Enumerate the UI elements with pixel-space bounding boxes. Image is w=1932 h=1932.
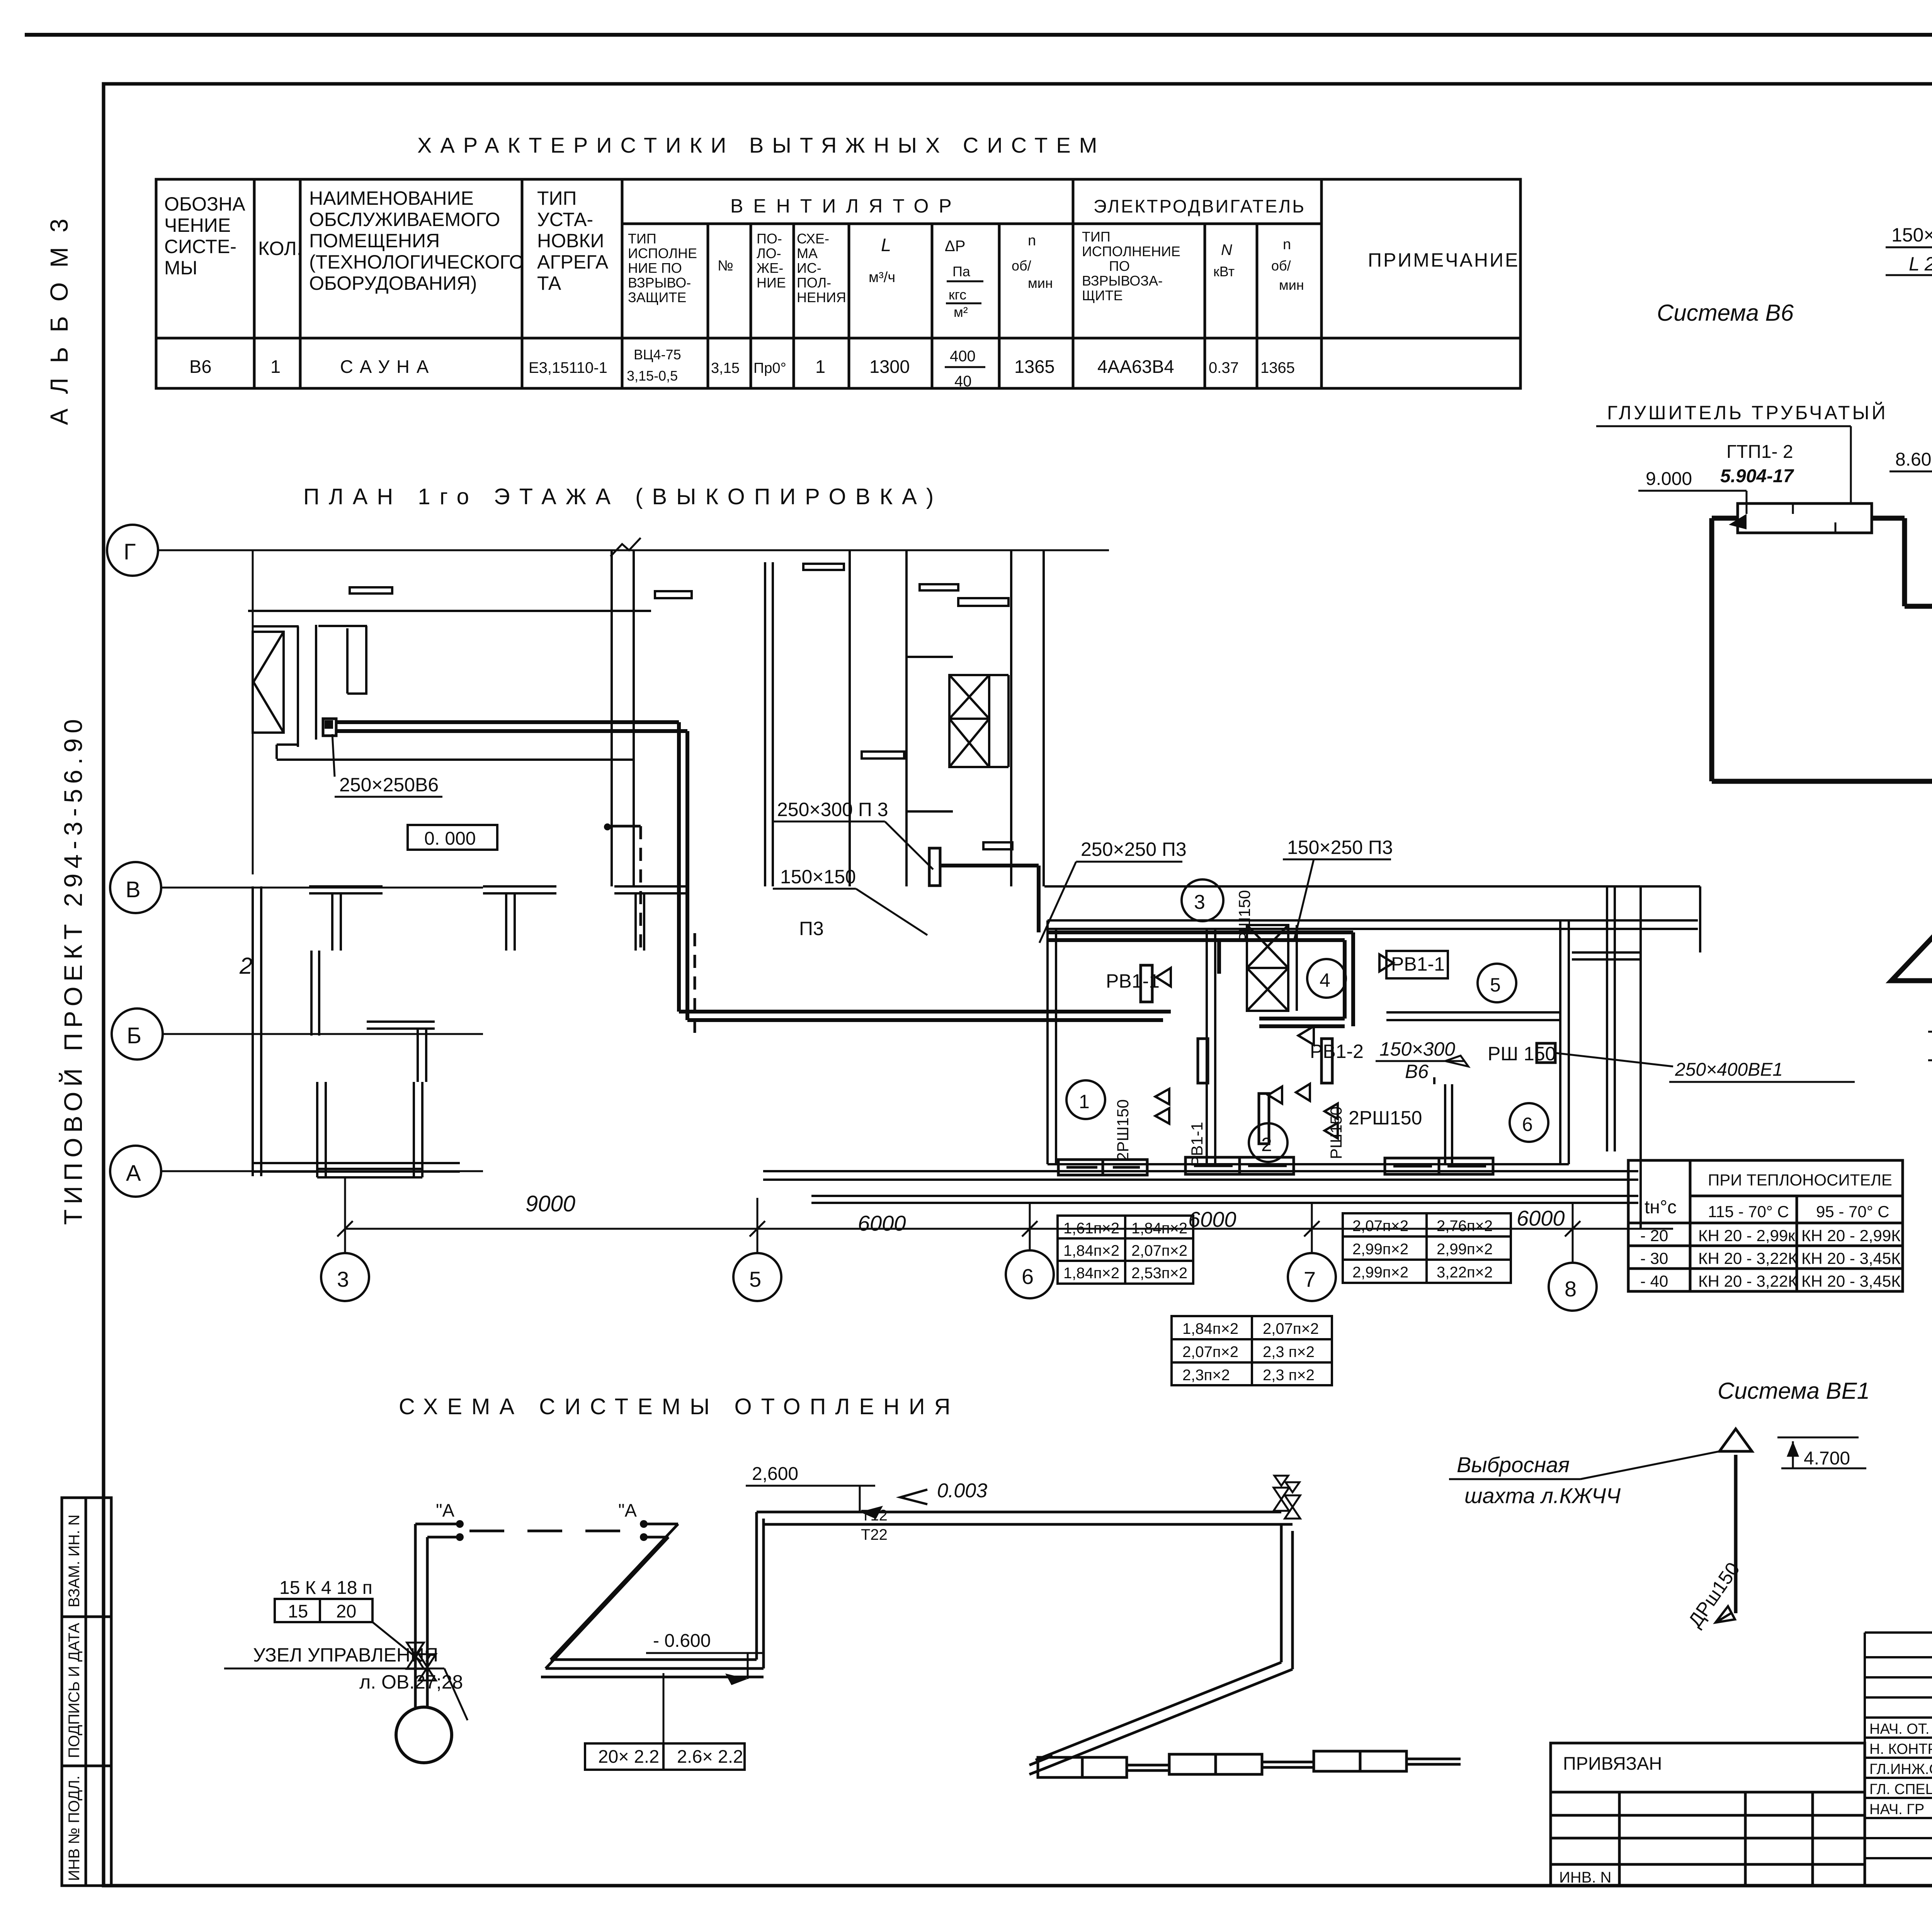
svg-text:ПОЛ-: ПОЛ-	[797, 275, 831, 291]
axis circle G	[107, 525, 163, 1197]
svg-text:л. ОВ.27;28: л. ОВ.27;28	[359, 1671, 463, 1693]
svg-text:Выбросная: Выбросная	[1457, 1452, 1570, 1477]
svg-text:НОВКИ: НОВКИ	[537, 230, 604, 252]
svg-text:В6: В6	[189, 356, 212, 377]
room number circles	[1066, 959, 1548, 1162]
svg-text:ВЗРЫВОЗА-: ВЗРЫВОЗА-	[1082, 273, 1163, 289]
P3 riser in corridor	[929, 848, 940, 886]
radiators in plan	[1058, 1157, 1493, 1175]
svg-text:ТА: ТА	[537, 272, 561, 294]
svg-text:Б: Б	[127, 1023, 141, 1048]
svg-text:РШ150: РШ150	[1235, 890, 1253, 943]
svg-text:"А: "А	[436, 1500, 455, 1520]
V6 2.600 run	[1712, 779, 1932, 784]
svg-text:м²: м²	[954, 304, 968, 320]
P3 duct inside block	[1048, 932, 1353, 1026]
shower X grilles	[1247, 925, 1297, 1011]
svg-text:95 - 70° С: 95 - 70° С	[1816, 1202, 1889, 1221]
svg-text:А Л Ь Б О М 3: А Л Ь Б О М 3	[45, 215, 73, 425]
duct B6 upper	[336, 722, 1171, 1020]
svg-text:НАИМЕНОВАНИЕ: НАИМЕНОВАНИЕ	[309, 187, 474, 209]
upper-left walls	[248, 550, 1044, 886]
svg-text:2,07п×2: 2,07п×2	[1182, 1344, 1238, 1361]
svg-text:2,76п×2: 2,76п×2	[1437, 1218, 1493, 1235]
svg-text:мин: мин	[1028, 275, 1053, 291]
sidebar boxes	[62, 1498, 111, 1886]
svg-text:КН 20 - 2,99К: КН 20 - 2,99К	[1801, 1226, 1901, 1245]
svg-text:5: 5	[749, 1267, 761, 1291]
svg-text:КОЛ.: КОЛ.	[258, 238, 302, 259]
svg-text:Па: Па	[952, 264, 971, 279]
svg-text:ПЛАН 1го ЭТАЖА (ВЫКОПИРОВКА: ПЛАН 1го ЭТАЖА (ВЫКОПИРОВКА)	[303, 484, 943, 509]
svg-text:1365: 1365	[1260, 359, 1295, 376]
svg-text:ПРИ ТЕПЛОНОСИТЕЛЕ: ПРИ ТЕПЛОНОСИТЕЛЕ	[1708, 1171, 1892, 1189]
svg-text:9000: 9000	[526, 1191, 575, 1216]
svg-text:РВ1-2: РВ1-2	[1310, 1041, 1364, 1062]
big Z duct	[1891, 781, 1932, 1068]
svg-text:2,53п×2: 2,53п×2	[1131, 1265, 1187, 1282]
svg-text:В: В	[126, 877, 141, 902]
svg-text:ТИП: ТИП	[537, 187, 577, 209]
svg-text:2,07п×2: 2,07п×2	[1263, 1320, 1319, 1337]
svg-text:ХАРАКТЕРИСТИКИ ВЫТЯЖНЫХ СИСТ: ХАРАКТЕРИСТИКИ ВЫТЯЖНЫХ СИСТЕМ	[417, 133, 1105, 157]
svg-text:ИСПОЛНЕНИЕ: ИСПОЛНЕНИЕ	[1082, 243, 1180, 259]
svg-text:1365: 1365	[1014, 356, 1055, 377]
svg-text:2,07п×2: 2,07п×2	[1131, 1242, 1187, 1259]
svg-text:1,84п×2: 1,84п×2	[1131, 1220, 1187, 1237]
svg-text:НЕНИЯ: НЕНИЯ	[797, 289, 846, 305]
svg-text:СХЕ-: СХЕ-	[797, 231, 829, 247]
svg-text:2,600: 2,600	[752, 1464, 798, 1484]
svg-text:n: n	[1028, 233, 1036, 249]
radiator row bottom	[1038, 1751, 1461, 1777]
riser top elbow to T12 T22	[757, 1512, 1293, 1524]
svg-text:40: 40	[954, 373, 972, 390]
silencer box	[1738, 503, 1872, 533]
svg-text:15 К 4 18 п: 15 К 4 18 п	[279, 1578, 372, 1598]
svg-text:ПО: ПО	[1109, 258, 1130, 274]
svg-text:3,22п×2: 3,22п×2	[1437, 1264, 1493, 1281]
axis horizontal lines	[158, 550, 1109, 1171]
svg-text:3,15: 3,15	[711, 360, 740, 376]
svg-text:ГЛУШИТЕЛЬ ТРУБЧАТЫЙ: ГЛУШИТЕЛЬ ТРУБЧАТЫЙ	[1607, 401, 1888, 423]
svg-text:УСТА-: УСТА-	[537, 209, 593, 230]
svg-text:8: 8	[1565, 1277, 1577, 1301]
svg-text:СИСТЕ-: СИСТЕ-	[164, 236, 236, 257]
svg-text:2.6× 2.2: 2.6× 2.2	[677, 1746, 743, 1767]
V6 duct from silencer	[1712, 518, 1738, 781]
svg-text:ГЛ.ИНЖ.ОТ: ГЛ.ИНЖ.ОТ	[1869, 1761, 1932, 1777]
svg-text:3,15-0,5: 3,15-0,5	[627, 368, 678, 384]
table near axis 6	[1058, 1216, 1193, 1284]
svg-text:ЩИТЕ: ЩИТЕ	[1082, 287, 1123, 303]
svg-text:2,99п×2: 2,99п×2	[1352, 1241, 1408, 1258]
svg-text:РВ1-1: РВ1-1	[1106, 970, 1160, 992]
svg-text:4.700: 4.700	[1804, 1448, 1850, 1469]
svg-text:ИС-: ИС-	[797, 260, 821, 276]
svg-text:6000: 6000	[1188, 1207, 1236, 1231]
svg-text:0. 000: 0. 000	[424, 828, 476, 849]
svg-text:КН 20 - 3,45К: КН 20 - 3,45К	[1801, 1272, 1901, 1290]
svg-text:кВт: кВт	[1213, 264, 1235, 279]
svg-text:2,3 п×2: 2,3 п×2	[1263, 1344, 1315, 1361]
svg-text:ГЛ. СПЕЦ.: ГЛ. СПЕЦ.	[1869, 1781, 1932, 1798]
svg-text:tн°с: tн°с	[1645, 1197, 1677, 1218]
svg-text:1300: 1300	[869, 356, 910, 377]
svg-text:МЫ: МЫ	[164, 257, 197, 279]
svg-text:3: 3	[337, 1267, 349, 1291]
svg-text:2,3п×2: 2,3п×2	[1182, 1367, 1230, 1384]
svg-text:(ТЕХНОЛОГИЧЕСКОГО: (ТЕХНОЛОГИЧЕСКОГО	[309, 251, 524, 273]
radiator panel diagonal (left loop)	[546, 1524, 678, 1668]
svg-text:об/: об/	[1012, 258, 1031, 274]
svg-text:250×300 П 3: 250×300 П 3	[777, 799, 888, 820]
svg-text:ВЗАМ. ИН. N: ВЗАМ. ИН. N	[66, 1515, 83, 1608]
svg-text:ИСПОЛНЕ: ИСПОЛНЕ	[628, 245, 697, 261]
svg-text:Н. КОНТР: Н. КОНТР	[1869, 1741, 1932, 1757]
svg-text:6: 6	[1522, 1114, 1533, 1135]
break mark on G axis	[611, 538, 641, 556]
svg-text:ИНВ. N: ИНВ. N	[1559, 1869, 1611, 1886]
top elbows and A-A dashed	[415, 1524, 458, 1537]
svg-text:250×250В6: 250×250В6	[339, 774, 439, 796]
svg-text:n: n	[1283, 236, 1291, 253]
svg-text:- 40: - 40	[1640, 1272, 1668, 1290]
svg-text:МА: МА	[797, 245, 818, 261]
0.000 level box	[408, 825, 497, 850]
svg-text:СХЕМА СИСТЕМЫ ОТОПЛЕНИЯ: СХЕМА СИСТЕМЫ ОТОПЛЕНИЯ	[399, 1394, 959, 1419]
grille bars	[1141, 965, 1555, 1144]
dim labels P3	[1891, 176, 1932, 371]
svg-text:2: 2	[239, 953, 252, 979]
svg-text:кгс: кгс	[949, 287, 966, 303]
svg-text:6000: 6000	[1517, 1206, 1565, 1230]
svg-text:В6: В6	[1405, 1061, 1429, 1082]
svg-text:ИНВ № ПОДЛ.: ИНВ № ПОДЛ.	[66, 1776, 83, 1881]
svg-text:ТИПОВОЙ ПРОЕКТ 294-3-56.90: ТИПОВОЙ ПРОЕКТ 294-3-56.90	[58, 714, 87, 1225]
svg-text:П3: П3	[799, 918, 824, 939]
svg-text:№: №	[718, 258, 733, 274]
svg-text:НАЧ. ГР: НАЧ. ГР	[1869, 1801, 1924, 1818]
svg-text:L: L	[881, 235, 891, 255]
svg-text:2,99п×2: 2,99п×2	[1437, 1241, 1493, 1258]
privyazan box	[1551, 1743, 1865, 1886]
svg-text:L 210: L 210	[1909, 253, 1932, 275]
svg-text:1,84п×2: 1,84п×2	[1063, 1242, 1119, 1259]
char table grid	[156, 179, 1520, 388]
svg-text:5: 5	[1490, 974, 1501, 996]
4.700 mark	[1777, 1437, 1866, 1468]
svg-text:1: 1	[270, 356, 281, 377]
250x400 VE1 label	[1555, 1053, 1855, 1082]
svg-text:0.003: 0.003	[937, 1480, 987, 1502]
svg-text:А: А	[126, 1161, 141, 1186]
risers to pump	[415, 1524, 427, 1707]
svg-text:ОБСЛУЖИВАЕМОГО: ОБСЛУЖИВАЕМОГО	[309, 209, 500, 230]
svg-text:115 - 70° С: 115 - 70° С	[1708, 1202, 1789, 1221]
svg-text:2РШ150: 2РШ150	[1114, 1099, 1132, 1161]
svg-text:ПРИВЯЗАН: ПРИВЯЗАН	[1563, 1753, 1662, 1774]
svg-text:ЧЕНИЕ: ЧЕНИЕ	[164, 214, 231, 236]
svg-text:ПО-: ПО-	[757, 231, 782, 247]
svg-text:ЛО-: ЛО-	[757, 245, 781, 261]
dimension line	[345, 1228, 1673, 1230]
svg-text:КН 20 - 3,45К: КН 20 - 3,45К	[1801, 1249, 1901, 1267]
svg-text:АГРЕГА: АГРЕГА	[537, 251, 609, 273]
svg-text:2РШ150: 2РШ150	[1349, 1107, 1422, 1129]
svg-text:НАЧ. ОТ.: НАЧ. ОТ.	[1869, 1721, 1929, 1737]
svg-text:ТИП: ТИП	[628, 231, 656, 247]
svg-text:Пр0°: Пр0°	[753, 360, 786, 376]
svg-text:ТИП: ТИП	[1082, 229, 1111, 245]
svg-text:7: 7	[1304, 1267, 1316, 1291]
svg-text:ВЦ4-75: ВЦ4-75	[634, 347, 681, 362]
svg-text:250×250 П3: 250×250 П3	[1081, 838, 1187, 860]
svg-text:2: 2	[1261, 1134, 1272, 1155]
svg-text:"А: "А	[618, 1500, 637, 1520]
T stubs	[309, 886, 688, 1177]
svg-text:ОБОЗНА: ОБОЗНА	[164, 193, 245, 215]
svg-text:НИЕ ПО: НИЕ ПО	[628, 260, 682, 276]
svg-text:8.600: 8.600	[1895, 449, 1932, 470]
svg-text:1,84п×2: 1,84п×2	[1063, 1265, 1119, 1282]
char table header texts	[164, 187, 1519, 294]
svg-text:шахта л.КЖЧЧ: шахта л.КЖЧЧ	[1464, 1483, 1621, 1508]
svg-text:1,84п×2: 1,84п×2	[1182, 1320, 1238, 1337]
svg-text:- 0.600: - 0.600	[653, 1631, 711, 1651]
room circle 3	[1182, 879, 1223, 921]
svg-text:Т22: Т22	[861, 1526, 888, 1543]
svg-text:ВЗРЫВО-: ВЗРЫВО-	[628, 275, 691, 291]
svg-text:150×250 П3: 150×250 П3	[1287, 837, 1393, 858]
svg-text:РШ 150: РШ 150	[1488, 1043, 1556, 1065]
svg-text:6000: 6000	[858, 1211, 906, 1235]
svg-text:ПРИМЕЧАНИЕ: ПРИМЕЧАНИЕ	[1368, 249, 1519, 271]
svg-text:Е3,15110-1: Е3,15110-1	[529, 359, 607, 376]
diagonal down to radiator row	[1036, 1662, 1293, 1769]
right wing	[1572, 886, 1700, 1229]
grid circles bottom	[321, 1250, 1597, 1311]
border outer top line	[25, 33, 1932, 37]
char table data row	[189, 347, 1295, 390]
svg-text:- 30: - 30	[1640, 1249, 1668, 1267]
B6 intake grille	[323, 719, 336, 736]
svg-text:1,61п×2: 1,61п×2	[1063, 1220, 1119, 1237]
svg-text:1: 1	[815, 356, 825, 377]
svg-text:ΔР: ΔР	[945, 238, 965, 255]
svg-text:Система ВЕ1: Система ВЕ1	[1718, 1378, 1870, 1404]
right riser with valves	[1274, 1476, 1300, 1519]
svg-text:150×150: 150×150	[780, 866, 856, 888]
svg-text:4АА63В4: 4АА63В4	[1097, 356, 1174, 377]
svg-text:150×300: 150×300	[1379, 1038, 1455, 1060]
svg-text:N: N	[1221, 241, 1232, 259]
svg-text:РВ1-1: РВ1-1	[1188, 1122, 1206, 1167]
svg-text:НИЕ: НИЕ	[757, 275, 786, 291]
sauna block outline	[1044, 886, 1700, 1164]
svg-text:м³/ч: м³/ч	[869, 269, 895, 286]
svg-text:ОБОРУДОВАНИЯ): ОБОРУДОВАНИЯ)	[309, 272, 477, 294]
svg-text:- 20: - 20	[1640, 1226, 1668, 1245]
svg-text:об/: об/	[1271, 258, 1291, 274]
svg-text:20× 2.2: 20× 2.2	[598, 1746, 659, 1767]
svg-text:КН 20 - 3,22К: КН 20 - 3,22К	[1698, 1249, 1798, 1267]
table near axis 7-8	[1343, 1213, 1511, 1283]
svg-text:КН 20 - 2,99к: КН 20 - 2,99к	[1698, 1226, 1795, 1245]
pump circle	[396, 1707, 452, 1763]
svg-text:4: 4	[1320, 969, 1330, 991]
svg-text:ПОМЕЩЕНИЯ: ПОМЕЩЕНИЯ	[309, 230, 440, 252]
svg-text:5.904-17: 5.904-17	[1720, 466, 1794, 486]
svg-text:15: 15	[288, 1601, 308, 1621]
svg-text:2,3 п×2: 2,3 п×2	[1263, 1367, 1315, 1384]
svg-text:РВ1-1: РВ1-1	[1391, 953, 1445, 975]
svg-text:САУНА: САУНА	[340, 356, 435, 377]
svg-text:3: 3	[1194, 891, 1205, 913]
svg-text:150×150: 150×150	[1891, 224, 1932, 246]
svg-text:мин: мин	[1279, 277, 1304, 293]
svg-text:Система В6: Система В6	[1657, 300, 1794, 326]
svg-text:ЗАЩИТЕ: ЗАЩИТЕ	[628, 289, 686, 305]
svg-text:ЭЛЕКТРОДВИГАТЕЛЬ: ЭЛЕКТРОДВИГАТЕЛЬ	[1094, 196, 1306, 216]
dashed risers	[639, 826, 642, 950]
svg-text:ГТП1- 2: ГТП1- 2	[1726, 442, 1793, 462]
svg-text:1: 1	[1079, 1091, 1090, 1112]
svg-text:20: 20	[336, 1601, 356, 1621]
svg-text:9.000: 9.000	[1646, 469, 1692, 489]
svg-text:ПОДПИСЬ И ДАТА: ПОДПИСЬ И ДАТА	[66, 1623, 83, 1758]
svg-text:2,07п×2: 2,07п×2	[1352, 1218, 1408, 1235]
svg-text:КН 20 - 3,22К: КН 20 - 3,22К	[1698, 1272, 1798, 1290]
20x2.2 box	[585, 1743, 745, 1770]
svg-text:2,99п×2: 2,99п×2	[1352, 1264, 1408, 1281]
svg-text:6: 6	[1022, 1264, 1034, 1289]
svg-text:ВЕНТИЛЯТОР: ВЕНТИЛЯТОР	[730, 195, 962, 217]
svg-text:400: 400	[950, 348, 976, 365]
svg-text:250×400ВЕ1: 250×400ВЕ1	[1675, 1060, 1783, 1080]
table middle	[1172, 1316, 1332, 1385]
valves	[407, 1643, 436, 1680]
signature table	[1865, 1633, 1932, 1886]
south walls	[253, 886, 1638, 1203]
svg-text:ЖЕ-: ЖЕ-	[757, 260, 783, 276]
svg-text:Г: Г	[124, 539, 136, 565]
VE1 mast with cap	[1734, 1455, 1738, 1613]
svg-text:0.37: 0.37	[1209, 359, 1239, 376]
